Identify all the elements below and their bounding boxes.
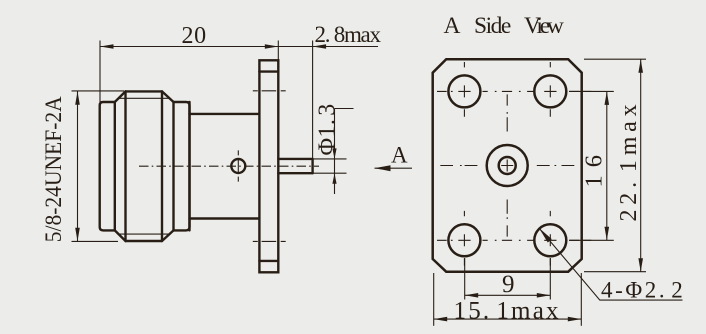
dim 9: left extension line — [464, 258, 466, 300]
left view: thread chamfer top-right diagonal — [162, 91, 174, 102]
dim phi1.3: top extension line — [313, 158, 347, 160]
dim phi1.3: upper outside arrowhead — [332, 148, 336, 159]
right view: center inner circle — [499, 157, 516, 174]
right view: top holes horizontal centerline — [437, 90, 591, 92]
dim 16: top extension line — [569, 90, 614, 92]
svg-text:16: 16 — [580, 147, 607, 188]
left view: thread minor diameter bottom thin line — [119, 233, 170, 235]
right view: flange outline octagon — [433, 59, 582, 272]
left view: thread runout vertical — [172, 102, 174, 230]
dim 5/8-24UNEF-2A: top arrowhead — [75, 91, 80, 105]
dim phi1.3: lower outside arrowhead — [332, 173, 336, 184]
dim 15.1max: left extension line — [433, 273, 435, 326]
svg-text:15.1max: 15.1max — [454, 297, 561, 324]
right view: center horizontal centerline — [440, 165, 574, 167]
left view: right collar outline — [174, 102, 190, 230]
left view: flange hole center tick top — [253, 90, 286, 92]
left view: solder hole circle — [231, 159, 245, 173]
dim 20: right extension line — [277, 41, 279, 60]
dim 5/8-24UNEF-2A: bottom arrowhead — [75, 228, 80, 242]
right view: top-left mounting hole — [448, 75, 480, 107]
left view: flange side rectangle — [259, 60, 278, 272]
dim 20 / 2.8max shared right arrowhead — [265, 44, 279, 49]
left view: contact pin top line — [278, 158, 312, 160]
left view: flange hole center tick bottom — [253, 240, 286, 242]
left view: collar right edge line — [114, 102, 116, 230]
left view: connector left end collar outline — [100, 102, 115, 230]
right view: bottom-right mounting hole — [534, 224, 566, 256]
dim phi1.3: top shelf line — [335, 108, 354, 110]
left view: contact pin end cap — [311, 159, 313, 173]
dim 2.8max: outside arrowhead — [313, 44, 327, 49]
right view: top-right hole vertical center mark — [549, 62, 551, 117]
dim 9: right extension line — [549, 258, 551, 300]
left view: flange corner chamfer top line — [259, 70, 278, 72]
left view: thread crest left vertical — [124, 91, 126, 241]
left view: solder hole vertical center mark — [237, 150, 239, 181]
left view: thread crest right vertical — [161, 91, 163, 241]
svg-text:20: 20 — [182, 23, 207, 49]
right view: bottom-left mounting hole — [448, 224, 480, 256]
dim 15.1max: right extension line — [580, 273, 582, 326]
left view: thread chamfer top-left diagonal — [115, 91, 126, 102]
dim 22.1max: top extension line — [584, 58, 646, 60]
section arrow line — [375, 167, 413, 169]
left view: thread crest top line — [126, 90, 163, 92]
svg-text:A: A — [391, 143, 408, 168]
dim 16: bottom extension line — [569, 239, 614, 241]
left view: thread crest bottom line — [126, 240, 163, 242]
dim 20: left extension line — [99, 41, 101, 103]
dim 9: dimension line — [465, 294, 551, 296]
dim 16: bottom arrowhead — [605, 227, 610, 241]
right view: bottom-right hole vertical center mark — [549, 211, 551, 266]
left view: horizontal centerline — [139, 165, 319, 167]
dim 15.1max: dimension line — [434, 318, 582, 320]
dim phi1.3: bottom extension line — [313, 172, 347, 174]
left view: flange corner chamfer bottom line — [259, 260, 278, 262]
svg-text:5/8-24UNEF-2A: 5/8-24UNEF-2A — [41, 96, 66, 242]
svg-text:ASideView: ASideView — [444, 13, 564, 39]
dim 5/8-24UNEF-2A: bottom extension line — [72, 240, 119, 242]
dim phi1.3: vertical dimension line — [334, 109, 336, 195]
dim 4-phi2.2: leader line — [539, 228, 683, 300]
dim 4-phi2.2: leader arrowhead — [539, 228, 552, 243]
svg-text:2.8max: 2.8max — [315, 22, 382, 47]
left view: thread chamfer bottom-right diagonal — [162, 230, 174, 241]
right view: bottom-left hole vertical center mark — [463, 211, 465, 266]
dim 2.8max: extension line at pin end — [312, 41, 314, 159]
right view: center vertical centerline — [506, 94, 508, 236]
dim 2.8max: dimension line under text — [278, 46, 378, 48]
right view: center outer circle — [487, 145, 528, 186]
right view: top-left hole vertical center mark — [463, 62, 465, 117]
dim 20: left arrowhead — [100, 44, 114, 49]
dim 9: left arrowhead — [465, 293, 479, 298]
dim 22.1max: top arrowhead — [638, 59, 643, 72]
dim 15.1max: right arrowhead — [568, 317, 582, 322]
left view: thread minor diameter top thin line — [119, 97, 170, 99]
left view: body cylinder top line — [190, 113, 260, 115]
right view: top-right mounting hole — [534, 75, 566, 107]
dim 16: top arrowhead — [605, 91, 610, 105]
left view: step face vertical — [188, 102, 190, 230]
svg-text:22.1max: 22.1max — [616, 100, 642, 222]
right view: bottom holes horizontal centerline — [437, 239, 591, 241]
svg-text:4-Φ2.2: 4-Φ2.2 — [601, 278, 685, 303]
left view: body cylinder bottom line — [190, 217, 260, 219]
svg-text:Φ1.3: Φ1.3 — [315, 103, 341, 155]
section arrowhead — [375, 165, 391, 171]
left view: thread chamfer bottom-left diagonal — [115, 230, 126, 241]
dim 5/8-24UNEF-2A: top extension line — [72, 90, 125, 92]
dim 9: right arrowhead — [537, 293, 551, 298]
dim 16: dimension line — [606, 91, 608, 240]
dim 22.1max: dimension line — [640, 59, 642, 272]
dim 20: dimension line — [100, 46, 278, 48]
left view: contact pin bottom line — [278, 172, 312, 174]
dim 22.1max: bottom extension line — [584, 271, 646, 273]
svg-text:9: 9 — [502, 271, 515, 298]
dim 22.1max: bottom arrowhead — [638, 258, 643, 272]
dim 5/8-24UNEF-2A: dimension line — [77, 91, 79, 241]
dim 15.1max: left arrowhead — [434, 317, 448, 322]
